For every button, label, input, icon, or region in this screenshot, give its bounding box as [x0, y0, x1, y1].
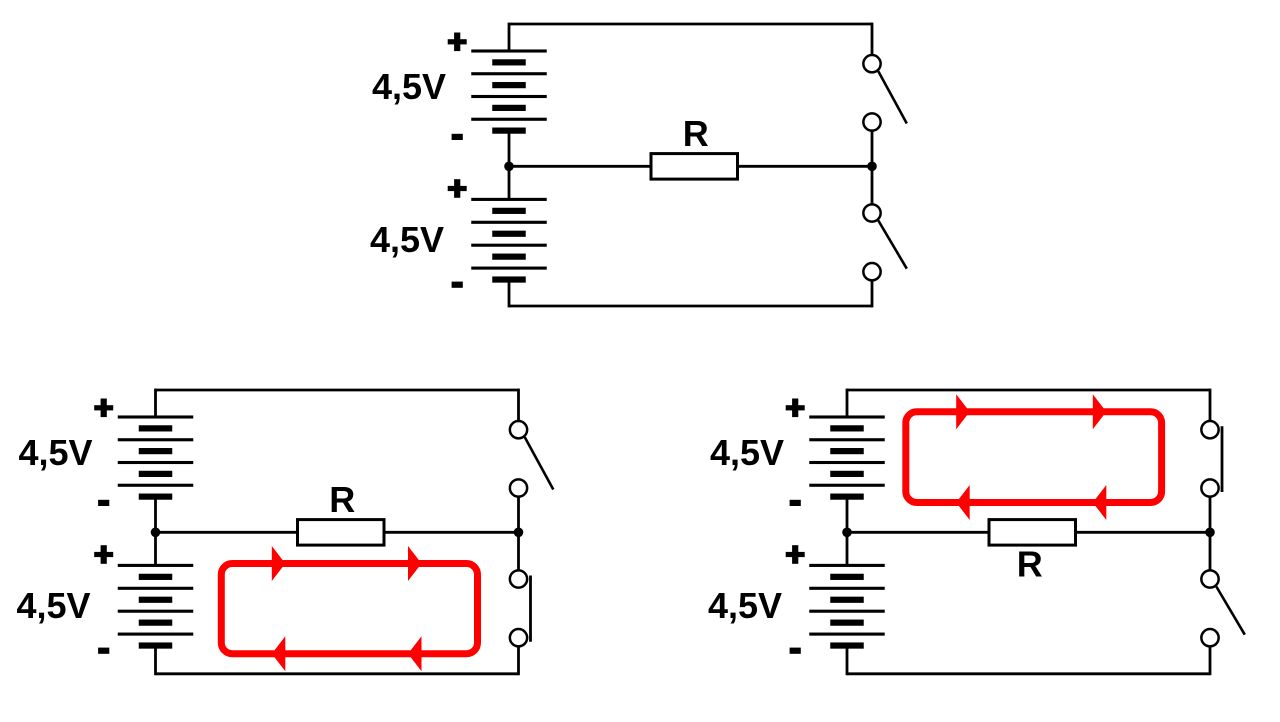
- switch S1 upper contact (circuit 3 bottom-right): [1201, 421, 1218, 438]
- wire: middle node to B2 plus terminal (circuit 1 top): [508, 166, 511, 199]
- switch S1 blade (closed) (circuit 3 bottom-right): [1221, 426, 1224, 492]
- wire: right node to switch S2 (circuit 2 bottom-left): [517, 532, 520, 570]
- wire: middle node to B2 plus terminal (circuit 2 bottom-left): [154, 532, 157, 565]
- current arrow left #2 (circuit 3 bottom-right): [1093, 485, 1107, 520]
- battery B2 (4,5V cell stack): [471, 198, 547, 283]
- wire: top horizontal (circuit 2 bottom-left): [156, 389, 519, 392]
- switch S1 blade (open) (circuit 2 bottom-left): [525, 437, 554, 489]
- polarity mark: B1 + (circuit 2 bottom-left): [94, 399, 113, 418]
- switch S1 lower contact (circuit 2 bottom-left): [510, 479, 527, 496]
- wire: top horizontal (circuit 1 top): [509, 23, 872, 26]
- switch S2 lower contact (circuit 3 bottom-right): [1201, 629, 1218, 646]
- wire: switch S2 to bottom wire (circuit 1 top): [871, 280, 874, 307]
- wire: bottom horizontal (circuit 1 top): [509, 305, 872, 308]
- switch S2 upper contact (circuit 2 bottom-left): [510, 570, 527, 587]
- current arrow right #2 (circuit 2 bottom-left): [408, 546, 422, 581]
- wire: B2 minus terminal to bottom wire (circuit 1 top): [508, 280, 511, 308]
- current loop (red) (circuit 3 bottom-right): [906, 412, 1162, 503]
- wire: B2 minus terminal to bottom wire (circuit 3 bottom-right): [846, 646, 849, 676]
- wire: right column top to switch S1 (circuit 1 top): [871, 23, 874, 55]
- svg-text:4,5V: 4,5V: [19, 432, 93, 473]
- current arrow left #1 (circuit 2 bottom-left): [272, 636, 286, 671]
- wire: top horizontal (circuit 3 bottom-right): [847, 389, 1210, 392]
- battery B1 (4,5V cell stack): [471, 49, 547, 133]
- polarity mark: B1 + (circuit 3 bottom-right): [786, 399, 805, 418]
- node: right junction (circuit 2 bottom-left): [514, 528, 524, 538]
- node: left junction (circuit 1 top): [504, 162, 514, 172]
- svg-text:R: R: [329, 479, 355, 520]
- polarity mark: B2 + (circuit 1 top): [448, 179, 467, 198]
- wire: bottom horizontal (circuit 2 bottom-left): [156, 672, 519, 675]
- switch S2 upper contact (circuit 1 top): [863, 204, 880, 221]
- switch S1 upper contact (circuit 1 top): [863, 55, 880, 72]
- switch S2 blade (open) (circuit 3 bottom-right): [1216, 587, 1245, 635]
- svg-text:4,5V: 4,5V: [710, 432, 784, 473]
- switch S2 blade (open) (circuit 1 top): [878, 221, 907, 269]
- switch S2 lower contact (circuit 2 bottom-left): [510, 629, 527, 646]
- battery B1 (4,5V cell stack): [118, 415, 194, 499]
- resistor R (circuit 2 bottom-left): [298, 520, 385, 546]
- wire: left column top, + terminal of B1 (circuit 1 top): [508, 23, 511, 51]
- node: right junction (circuit 1 top): [867, 162, 877, 172]
- switch S1 blade (open) (circuit 1 top): [878, 71, 907, 123]
- wire: B2 minus terminal to bottom wire (circuit 2 bottom-left): [154, 646, 157, 676]
- wire: right node to switch S2 (circuit 1 top): [871, 166, 874, 204]
- wire: left column top, + terminal of B1 (circuit 3 bottom-right): [846, 389, 849, 417]
- polarity mark: B1 + (circuit 1 top): [448, 33, 467, 52]
- resistor R (circuit 3 bottom-right): [989, 520, 1076, 546]
- wire: middle horizontal through R (circuit 1 top): [509, 165, 872, 168]
- node: left junction (circuit 2 bottom-left): [151, 528, 161, 538]
- wire: switch S2 to bottom wire (circuit 2 bottom-left): [517, 646, 520, 675]
- node: right junction (circuit 3 bottom-right): [1205, 528, 1215, 538]
- current loop (red) (circuit 2 bottom-left): [221, 564, 477, 654]
- wire: switch S1 to right node (circuit 2 bottom-left): [517, 497, 520, 533]
- resistor R (circuit 1 top): [651, 154, 738, 180]
- switch S2 upper contact (circuit 3 bottom-right): [1201, 570, 1218, 587]
- polarity mark: B2 - (circuit 1 top): [452, 282, 463, 288]
- node: left junction (circuit 3 bottom-right): [842, 528, 852, 538]
- wire: B1 minus terminal to middle node (circuit 2 bottom-left): [154, 497, 157, 533]
- wire: bottom horizontal (circuit 3 bottom-right): [847, 672, 1210, 675]
- current arrow right #1 (circuit 3 bottom-right): [956, 394, 970, 429]
- wire: right node to switch S2 (circuit 3 bottom-right): [1209, 532, 1212, 570]
- wire: right column top to switch S1 (circuit 2 bottom-left): [517, 389, 520, 421]
- polarity mark: B1 - (circuit 1 top): [452, 134, 463, 140]
- svg-text:4,5V: 4,5V: [708, 585, 782, 626]
- wire: switch S1 to right node (circuit 1 top): [871, 131, 874, 167]
- wire: right column top to switch S1 (circuit 3 bottom-right): [1209, 389, 1212, 421]
- switch S1 lower contact (circuit 3 bottom-right): [1201, 479, 1218, 496]
- switch S2 blade (closed) (circuit 2 bottom-left): [529, 576, 532, 642]
- svg-text:4,5V: 4,5V: [17, 585, 91, 626]
- svg-text:R: R: [683, 113, 709, 154]
- svg-text:R: R: [1017, 544, 1043, 585]
- wire: middle horizontal through R (circuit 2 bottom-left): [156, 531, 519, 534]
- switch S1 lower contact (circuit 1 top): [863, 113, 880, 130]
- polarity mark: B2 + (circuit 2 bottom-left): [94, 545, 113, 564]
- wire: middle node to B2 plus terminal (circuit 3 bottom-right): [846, 532, 849, 565]
- wire: switch S2 to bottom wire (circuit 3 bottom-right): [1209, 646, 1212, 675]
- polarity mark: B1 - (circuit 3 bottom-right): [790, 500, 801, 506]
- wire: B1 minus terminal to middle node (circuit 3 bottom-right): [846, 497, 849, 533]
- current arrow left #2 (circuit 2 bottom-left): [408, 636, 422, 671]
- svg-text:4,5V: 4,5V: [372, 66, 446, 107]
- switch S2 lower contact (circuit 1 top): [863, 263, 880, 280]
- battery B2 (4,5V cell stack): [118, 564, 194, 649]
- polarity mark: B1 - (circuit 2 bottom-left): [98, 500, 109, 506]
- polarity mark: B2 - (circuit 3 bottom-right): [790, 648, 801, 654]
- svg-text:4,5V: 4,5V: [370, 219, 444, 260]
- current arrow right #1 (circuit 2 bottom-left): [272, 546, 286, 581]
- battery B2 (4,5V cell stack): [809, 564, 885, 649]
- current arrow left #1 (circuit 3 bottom-right): [956, 485, 970, 520]
- polarity mark: B2 + (circuit 3 bottom-right): [786, 545, 805, 564]
- wire: switch S1 to right node (circuit 3 bottom-right): [1209, 497, 1212, 533]
- switch S1 upper contact (circuit 2 bottom-left): [510, 421, 527, 438]
- current arrow right #2 (circuit 3 bottom-right): [1093, 394, 1107, 429]
- battery B1 (4,5V cell stack): [809, 415, 885, 499]
- wire: middle horizontal through R (circuit 3 bottom-right): [847, 531, 1210, 534]
- wire: left column top, + terminal of B1 (circuit 2 bottom-left): [154, 389, 157, 417]
- polarity mark: B2 - (circuit 2 bottom-left): [98, 648, 109, 654]
- wire: B1 minus terminal to middle node (circuit 1 top): [508, 131, 511, 167]
